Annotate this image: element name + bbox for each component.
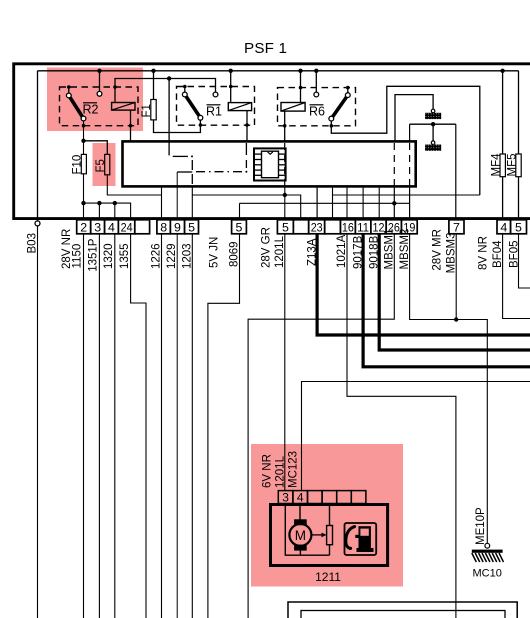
wire: pin11 stub (362, 186, 364, 219)
wire: rail to ground G2 (432, 124, 434, 141)
wire: B03 down (37, 226, 39, 618)
svg-text:M: M (295, 528, 306, 543)
wire: pin23 bold wire to right edge (317, 234, 530, 335)
label R1 (206, 105, 222, 119)
svg-text:4: 4 (297, 491, 304, 505)
wire: module pin4 to motor top (299, 504, 301, 520)
svg-text:7: 7 (453, 221, 460, 235)
relay R6 dashed box (278, 88, 356, 126)
wire: pin4 BF04 to right edge (503, 234, 530, 319)
wire: rail to MF4 (502, 71, 504, 154)
wire: MF5 to pin 5 (518, 177, 520, 220)
wire: e3 vertical (332, 186, 334, 219)
svg-text:2: 2 (80, 221, 87, 235)
svg-text:8V NR: 8V NR (478, 236, 490, 270)
svg-text:28V GR: 28V GR (261, 227, 273, 268)
wire: pin19 MBSM2 to ground net (410, 234, 488, 544)
fuse F5 (105, 154, 110, 174)
wire: R1 NC stub (184, 87, 186, 93)
label MF5 (506, 154, 518, 177)
svg-text:1203: 1203 (181, 243, 193, 269)
svg-text:4: 4 (500, 221, 507, 235)
relay R1 coil (228, 103, 251, 111)
module 1211 box (271, 505, 388, 566)
wire: R1 coil bottom to ECU (246, 111, 248, 142)
wire: pin3 drop (98, 203, 100, 618)
node: F10/F5 split (81, 139, 85, 143)
relay R2 coil (112, 103, 135, 111)
svg-text:5: 5 (188, 221, 195, 235)
wire: F1 to R1 switch (154, 120, 201, 133)
svg-text:PSF 1: PSF 1 (244, 40, 287, 57)
ECU box (internal control unit) (123, 141, 416, 186)
wire: pin7 MBSM3 drop (455, 234, 457, 320)
label MF4 (491, 153, 503, 177)
wire: R6 coil dashed through ECU (284, 143, 286, 186)
svg-text:R1: R1 (206, 105, 222, 119)
PSF1 box border (14, 64, 530, 219)
svg-text:MC123: MC123 (288, 451, 300, 488)
wire: pin8 vertical (161, 186, 163, 618)
svg-text:MC10: MC10 (473, 568, 502, 580)
highlight around fuse F5 (93, 143, 116, 186)
svg-text:1201L: 1201L (275, 455, 287, 488)
relay R6 switch blade (331, 95, 348, 119)
wire: R6 switch output loop (331, 86, 480, 195)
wire: pin5 BF05 to right edge (519, 234, 530, 288)
wire: pin5a drop (191, 195, 193, 618)
svg-text:24: 24 (121, 221, 133, 235)
node: rail junction dots (97, 69, 505, 73)
wire: motor bottom stub (299, 551, 301, 556)
node: junction at x169 (167, 76, 171, 80)
wire: pin12 stub (378, 186, 380, 219)
ground MC10 (472, 543, 504, 562)
fuse F1 (151, 100, 156, 120)
svg-text:1355: 1355 (119, 243, 131, 269)
wire: resistor bottom (329, 545, 331, 556)
highlight around fuel pump module 1211 (251, 444, 403, 587)
svg-text:8: 8 (160, 221, 167, 235)
label F1 (141, 104, 153, 117)
wire: R6 common from rail (315, 71, 317, 92)
svg-text:5V JN: 5V JN (209, 237, 221, 268)
svg-text:1021A: 1021A (336, 234, 348, 268)
wire labels (rotated) (61, 227, 520, 273)
label R2 (83, 103, 99, 117)
svg-text:1229: 1229 (166, 243, 178, 269)
wiper arrow motor to resistor (312, 533, 327, 538)
resistor (level sensor) (327, 526, 333, 545)
svg-text:6V NR: 6V NR (262, 454, 274, 488)
svg-text:ME10P: ME10P (475, 507, 487, 545)
wire: pin4 drop (114, 203, 116, 618)
wire: F10 to pin row (83, 174, 85, 203)
wire: pin9 vertical (176, 172, 178, 618)
node: dot row2 pin26 (392, 201, 396, 205)
svg-text:1211: 1211 (315, 570, 341, 584)
wire: B03 feed (37, 71, 39, 221)
wire: module pin3 to motor circuit (285, 504, 329, 556)
svg-text:1150: 1150 (72, 244, 84, 269)
highlight around relay R2 (47, 68, 143, 132)
PSF1 connector pin boxes (77, 220, 527, 234)
svg-text:8069: 8069 (229, 241, 241, 267)
svg-text:MBSM3: MBSM3 (445, 232, 457, 273)
label F10 (72, 155, 84, 175)
wire: F5 to pin 8 (107, 175, 161, 195)
wire: pin23 stub (316, 186, 318, 219)
svg-text:5: 5 (515, 221, 522, 235)
relay R2 terminal circles (66, 91, 102, 121)
fuse F10 (81, 154, 86, 173)
pin numbers (80, 221, 522, 235)
fuse MF4 (500, 154, 505, 177)
svg-text:MBSM2: MBSM2 (399, 229, 411, 270)
wire: pin2 drop (83, 203, 85, 618)
wire: R2 NC stub (68, 87, 70, 93)
svg-text:MF4: MF4 (491, 153, 503, 177)
label R6 (309, 105, 325, 119)
label B03 (27, 233, 39, 253)
module wire labels (262, 451, 300, 488)
wire: pin16 net to lower module (347, 234, 456, 618)
wire: pin19 vertical from ground rail dashed through ECU (409, 124, 411, 141)
wire: ECU exit row1a to pins 5/5/e2 (192, 187, 300, 220)
relay R1 dashed box (177, 87, 255, 126)
label ME10P (475, 507, 487, 545)
wire: row L (F10 net to pins 2,3,4,24) (84, 203, 131, 220)
relay R2 dashed box (60, 87, 139, 126)
wire: R2 coil to R1 common (115, 79, 216, 103)
module pin numbers 3 and 4 (282, 491, 304, 505)
svg-text:F5: F5 (95, 159, 107, 172)
relay R6 coil (281, 103, 305, 112)
relay R1 terminal circles (182, 92, 218, 120)
wire: row2 ground spur (5b,26,19) (240, 202, 410, 204)
wire: MF4 to pin 4 (502, 177, 504, 220)
wire: drop to ECU logic (168, 79, 170, 156)
svg-text:5: 5 (236, 221, 243, 235)
wire: pin12 bold wire to right edge (379, 234, 530, 350)
relay R6 terminal circles (314, 92, 350, 121)
motor M (289, 519, 311, 550)
wire: pin7 vertical from ground rail (455, 124, 457, 220)
svg-text:F1: F1 (141, 104, 153, 117)
wire: R6 coil bottom to ECU (284, 111, 286, 141)
svg-text:9017B: 9017B (352, 235, 364, 269)
svg-text:R2: R2 (83, 103, 99, 117)
wire: feed to F5 (84, 141, 108, 155)
wire: R6 NO stub (347, 88, 349, 93)
wire: R1 coil top to rail (230, 71, 232, 103)
svg-text:B03: B03 (27, 233, 39, 253)
wire: rail corner to MF5 (518, 71, 520, 154)
wire: 28V supply rail (38, 70, 519, 72)
svg-text:1320: 1320 (103, 243, 115, 269)
svg-text:4: 4 (108, 221, 115, 235)
relay R2 switch blade (69, 96, 84, 119)
svg-text:F10: F10 (72, 155, 84, 175)
svg-text:Z13A: Z13A (306, 238, 318, 266)
fuel pump icon (345, 523, 377, 555)
node: dot row1a pin5c (283, 193, 287, 197)
svg-text:1201L: 1201L (274, 235, 286, 268)
wire: pin26 MBSM1 branch (248, 234, 394, 618)
wire: pin5b drop with jog (208, 203, 240, 618)
module 1211 connector cells (278, 491, 366, 504)
svg-text:28V MR: 28V MR (432, 229, 444, 271)
svg-text:1351P: 1351P (88, 238, 100, 272)
wire: pin16 stub (346, 186, 348, 219)
relay R1 switch blade (185, 95, 201, 118)
wire: rail to F1 (153, 71, 155, 100)
svg-text:5: 5 (282, 221, 289, 235)
wire: resistor top to cell (329, 504, 331, 526)
svg-text:MF5: MF5 (506, 154, 518, 177)
svg-text:1226: 1226 (151, 243, 163, 269)
svg-text:BF04: BF04 (492, 240, 504, 268)
lower module box (cut off) (288, 602, 517, 618)
wire: ground rail MBSM2/MBSM3 (410, 123, 456, 125)
svg-text:9: 9 (174, 221, 181, 235)
label F5 (95, 159, 107, 172)
svg-text:16: 16 (342, 221, 354, 235)
wire: R2 switch to fuses (83, 121, 85, 154)
svg-text:3: 3 (94, 221, 101, 235)
wire: R2 coil bottom to ECU (130, 110, 132, 141)
wire: R2 common from rail (99, 71, 101, 92)
wire: pin11 bold wire to right edge (363, 234, 530, 367)
svg-text:9018B: 9018B (368, 235, 380, 269)
wire: pin24 drop with jog (131, 220, 146, 618)
svg-text:11: 11 (357, 221, 369, 235)
wire: pin26 dashed through ECU (393, 143, 395, 186)
svg-text:R6: R6 (309, 105, 325, 119)
fuse MF5 (516, 154, 521, 177)
ground G1 (upper) (425, 109, 441, 119)
svg-text:23: 23 (311, 221, 323, 235)
wire: row1b R6 switch net (333, 194, 480, 196)
svg-text:3: 3 (282, 491, 289, 505)
IC chip U1 (254, 148, 286, 180)
lower module inner box (cut off) (301, 611, 505, 618)
svg-text:BF05: BF05 (508, 241, 520, 269)
ground G2 (lower) (425, 141, 441, 151)
wire: R6 coil top to rail (300, 71, 302, 103)
wire: ECU internal dash-dot net (173, 143, 248, 187)
svg-text:MBSM1: MBSM1 (384, 229, 396, 270)
wire: pin5c vertical to module pin3 (284, 187, 286, 196)
wire: MBSM1 ground link (395, 95, 433, 142)
terminal B03 circle (35, 221, 40, 226)
wire: feed to module pin4 from right edge (302, 382, 530, 491)
